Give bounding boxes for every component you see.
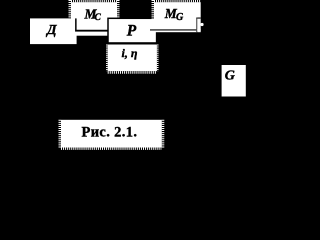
block Р (gearbox) — [107, 18, 157, 44]
caption box Рис. 2.1. — [60, 120, 163, 149]
svg-text:i, η: i, η — [122, 46, 138, 60]
svg-text:Р: Р — [127, 23, 137, 40]
label box MG (torque МG) — [153, 0, 201, 31]
block G (generator) — [222, 65, 246, 97]
label box Mc (torque Мс) — [70, 0, 118, 32]
notch cut into MG box right end — [196, 18, 201, 19]
shaft (double line) between Д and Р — [74, 31, 110, 36]
svg-text:G: G — [225, 69, 235, 84]
svg-text:Д: Д — [45, 23, 57, 38]
white sliver right of divider below MG box — [197, 29, 200, 32]
svg-text:Рис. 2.1.: Рис. 2.1. — [82, 125, 138, 141]
vertical divider line at MG right end — [196, 18, 197, 33]
label box i, η (gear ratio, efficiency) — [107, 45, 158, 73]
shaft (double line) between Р and generator — [150, 30, 197, 32]
block Д (motor) — [30, 18, 77, 44]
small node dot — [200, 23, 203, 26]
